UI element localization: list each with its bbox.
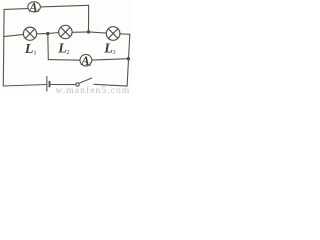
label L2 [57, 42, 69, 57]
wire drop to A2 [48, 59, 80, 62]
battery [47, 76, 50, 91]
label L3 [103, 42, 115, 57]
wire node A drop [47, 34, 50, 60]
wire left rail [2, 9, 5, 86]
svg-text:1: 1 [37, 8, 40, 14]
label L1 [24, 42, 37, 57]
svg-text:3: 3 [112, 49, 115, 56]
wire L1 to node A [37, 33, 48, 35]
wire A1 to top-right corner [40, 5, 88, 7]
svg-text:w.manfen5.com: w.manfen5.com [56, 85, 131, 94]
lamp L3 [106, 27, 120, 41]
wire switch to right corner [94, 84, 127, 86]
lamp L1 [23, 27, 36, 40]
wire top left to A1 [4, 8, 28, 11]
wire top-right drop to node B [88, 5, 90, 32]
node C junction dot [127, 57, 130, 60]
svg-text:2: 2 [89, 61, 92, 67]
wire L3 to right corner [120, 33, 130, 36]
wire bottom left [3, 85, 46, 87]
ammeter A1 [28, 0, 41, 14]
svg-text:L: L [24, 42, 34, 57]
wire right rail [127, 34, 130, 86]
svg-text:1: 1 [33, 49, 36, 56]
wire node B to L3 [89, 32, 107, 33]
lamp L2 [59, 25, 72, 38]
wire battery to switch [51, 84, 76, 86]
svg-text:L: L [103, 42, 113, 57]
svg-text:2: 2 [66, 49, 69, 56]
ammeter A2 [80, 54, 92, 68]
switch S [76, 78, 92, 86]
wire middle rail to L1 [4, 34, 24, 36]
wire L2 to node B [72, 31, 88, 33]
wire A2 to node C [92, 59, 129, 60]
node A junction dot [46, 32, 49, 35]
wire node A to L2 [48, 33, 59, 34]
node B junction dot [87, 30, 90, 33]
